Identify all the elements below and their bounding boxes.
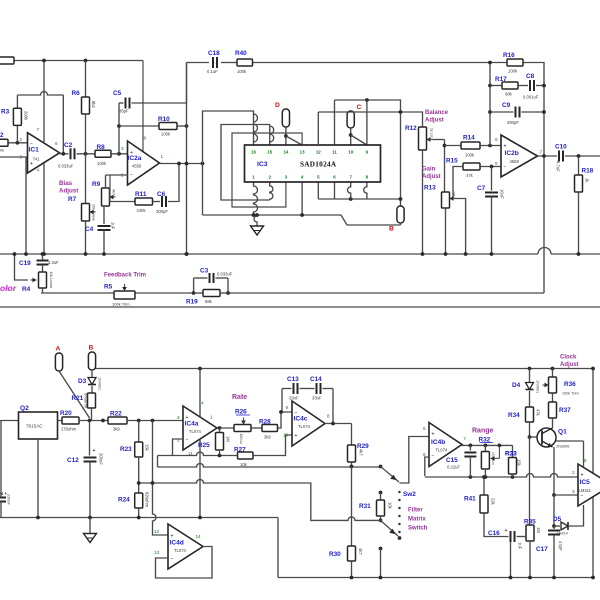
svg-text:R28: R28 xyxy=(259,419,271,426)
wire top-left supply rail xyxy=(14,60,143,62)
svg-text:16: 16 xyxy=(251,150,256,155)
wire C2 to R8 xyxy=(77,153,96,155)
junction rail / R6 xyxy=(84,59,88,63)
wire wavy ground stem xyxy=(254,215,257,226)
wire mid ground rail xyxy=(0,517,278,519)
svg-text:1M: 1M xyxy=(226,436,231,442)
wire R41 to C16 xyxy=(484,513,509,537)
wire line B filter feedback xyxy=(139,480,381,521)
junction R31 top contact xyxy=(379,491,383,495)
resistor R34 xyxy=(508,407,541,422)
wire to D5 xyxy=(554,525,560,527)
wire base column down xyxy=(529,437,531,525)
svg-text:11: 11 xyxy=(332,150,337,155)
wire IC4a pin11 down xyxy=(199,440,201,518)
capacitor C14 xyxy=(310,376,322,401)
svg-text:100k Trim: 100k Trim xyxy=(112,302,130,307)
svg-text:−: − xyxy=(432,454,435,460)
wire C pin to pin10 xyxy=(350,128,352,145)
svg-text:R15: R15 xyxy=(446,158,458,165)
junction bottom rail / right edge xyxy=(591,576,595,580)
switch Sw2 arm 1 xyxy=(381,467,400,483)
resistor R25 xyxy=(198,433,231,451)
svg-text:R20: R20 xyxy=(60,410,72,417)
wire C to pin9 diagonal xyxy=(351,135,367,145)
resistor R22 xyxy=(108,411,127,432)
capacitor C9 xyxy=(502,102,520,125)
svg-text:+: + xyxy=(505,528,508,534)
svg-text:B: B xyxy=(89,345,94,352)
svg-text:R41: R41 xyxy=(464,496,476,503)
resistor R27 xyxy=(234,447,253,468)
wire R37 to Q1 collector xyxy=(552,418,554,428)
svg-text:741: 741 xyxy=(33,157,41,162)
wire R4 to feedback line xyxy=(42,288,44,293)
svg-text:−: − xyxy=(581,494,584,500)
resistor R10 xyxy=(158,116,177,137)
svg-text:Feedback Trim: Feedback Trim xyxy=(104,273,146,279)
svg-text:68k: 68k xyxy=(205,299,213,304)
svg-text:4k7: 4k7 xyxy=(112,189,116,195)
resistor R31 xyxy=(359,500,393,516)
resistor R15 xyxy=(446,158,480,179)
junction emitter / IC5 xyxy=(552,493,556,497)
wire R40 to R16 xyxy=(253,62,508,64)
wire D pin to pin14 xyxy=(285,127,287,145)
wire feedback right leg xyxy=(62,95,64,154)
svg-text:Q1: Q1 xyxy=(558,429,567,436)
svg-text:R13: R13 xyxy=(424,185,436,192)
wire R15 to IC2b pin5 xyxy=(480,166,501,168)
svg-text:33nF: 33nF xyxy=(312,396,322,401)
trimmer resistor R13 xyxy=(424,185,456,209)
wire feedback to R3 xyxy=(16,95,18,108)
wire IC4d feedback loop xyxy=(156,547,213,579)
svg-text:10: 10 xyxy=(283,433,289,438)
junction IC4d branch xyxy=(151,419,155,423)
svg-text:6: 6 xyxy=(423,452,426,457)
svg-text:C3: C3 xyxy=(200,268,209,275)
node B terminal pin xyxy=(88,345,95,371)
wire R19 right xyxy=(220,292,228,294)
wire R16 right to IC2b output column xyxy=(523,63,544,157)
wire loop to inv input xyxy=(282,389,292,413)
trimmer resistor R4 xyxy=(22,272,53,294)
wire to R17 xyxy=(490,85,502,87)
junction main node xyxy=(88,419,92,423)
switch Sw2 arm 2 xyxy=(381,520,399,536)
junction ground contact xyxy=(379,547,383,551)
wire R11 to C6 xyxy=(153,201,161,203)
svg-text:2: 2 xyxy=(20,137,23,142)
wire D to pin13 diagonal xyxy=(286,136,302,145)
switch Sw2 contact strip xyxy=(398,491,400,533)
junction R3 / input xyxy=(16,141,20,145)
junction rail mid xyxy=(185,252,189,256)
svg-text:9: 9 xyxy=(286,405,289,410)
capacitor C3 xyxy=(200,268,233,284)
svg-text:560ohm: 560ohm xyxy=(84,393,89,409)
transistor Q1 xyxy=(537,428,569,449)
wire R15 left to gain wiper xyxy=(453,167,463,199)
ground BBD xyxy=(251,226,264,235)
svg-text:12: 12 xyxy=(154,529,160,534)
wire top rail to C18 xyxy=(187,62,210,64)
svg-text:33nF: 33nF xyxy=(289,396,299,401)
wire gain wiper arrow xyxy=(450,196,466,254)
svg-text:0.001uF: 0.001uF xyxy=(523,95,539,100)
svg-text:36pF: 36pF xyxy=(119,109,129,114)
junction wiper / rail xyxy=(464,252,468,256)
wire R23 to R24 xyxy=(138,457,140,493)
wire node to C12 xyxy=(89,421,91,456)
svg-text:10uF: 10uF xyxy=(500,189,505,199)
svg-text:6: 6 xyxy=(495,137,498,142)
wire second loop bottom xyxy=(254,199,270,201)
svg-text:IC4a: IC4a xyxy=(185,421,199,428)
svg-text:IC3: IC3 xyxy=(257,161,268,168)
svg-text:300pF: 300pF xyxy=(156,209,168,214)
wire output to R33 xyxy=(512,445,514,457)
svg-text:200uF: 200uF xyxy=(99,453,104,465)
svg-text:+: + xyxy=(581,473,584,479)
junction R23-R24 column / line B xyxy=(137,481,141,485)
junction base node xyxy=(528,435,532,439)
node A terminal pin xyxy=(55,346,62,372)
wire power input xyxy=(0,420,19,422)
wire R28 to IC4c inv xyxy=(278,412,282,428)
capacitor C4 xyxy=(85,222,116,233)
junction R41 / bus xyxy=(482,475,486,479)
svg-text:7: 7 xyxy=(37,127,40,132)
trimmer resistor R32 xyxy=(479,437,496,470)
junction R35 / rail xyxy=(528,576,532,580)
svg-text:240k: 240k xyxy=(137,208,147,213)
wire collector to IC5 supply xyxy=(556,440,584,442)
node C terminal pin xyxy=(347,104,361,128)
wire R34 to base node xyxy=(529,422,531,437)
svg-text:A: A xyxy=(56,346,61,353)
svg-text:C10: C10 xyxy=(555,144,567,151)
wire pin12 to R12 xyxy=(318,112,422,127)
op-amp IC4d xyxy=(154,524,203,569)
svg-text:5: 5 xyxy=(423,426,426,431)
svg-text:100k: 100k xyxy=(465,153,475,158)
wire IC2a output xyxy=(160,163,203,165)
wire IC4a feedback loop xyxy=(158,439,238,456)
junction contact stub / rail xyxy=(379,576,383,580)
node D terminal pin xyxy=(275,102,290,127)
junction arm1 pivot xyxy=(379,465,383,469)
svg-text:6: 6 xyxy=(55,141,58,146)
svg-text:4: 4 xyxy=(37,168,40,173)
resistor R33 xyxy=(505,451,522,475)
svg-text:15: 15 xyxy=(267,150,272,155)
svg-text:R5: R5 xyxy=(104,284,113,291)
junction C9 left xyxy=(488,110,492,114)
svg-text:3: 3 xyxy=(572,489,575,494)
resistor R29 xyxy=(348,443,370,462)
junction bottom bus / pin1 loop xyxy=(252,213,256,217)
wire C8 to column xyxy=(536,85,544,87)
svg-text:R33: R33 xyxy=(505,451,517,458)
resistor R21 xyxy=(72,393,96,409)
svg-text:B: B xyxy=(389,226,394,233)
wire cap loop right xyxy=(323,388,334,390)
svg-text:4.7uF: 4.7uF xyxy=(556,161,561,172)
svg-text:1uF: 1uF xyxy=(518,542,523,550)
resistor R28 xyxy=(259,419,278,440)
svg-text:R11: R11 xyxy=(135,191,147,198)
wire pin4 stub xyxy=(301,182,303,215)
wire R30 to rail xyxy=(351,561,353,578)
op-amp IC4a xyxy=(177,401,217,457)
wire R13 to rail xyxy=(445,208,447,254)
wire rail to C19 xyxy=(42,254,44,261)
svg-text:+: + xyxy=(30,161,33,167)
capacitor C18 xyxy=(207,50,220,74)
svg-text:47k: 47k xyxy=(536,409,541,417)
wire input to IC1 pin 2 xyxy=(0,142,28,144)
wire BBD left outer loop xyxy=(203,111,258,215)
svg-text:14: 14 xyxy=(196,534,202,539)
junction R25 / loop xyxy=(218,454,222,458)
capacitor C15 xyxy=(446,453,476,470)
resistor R3 xyxy=(1,108,29,125)
svg-text:Filter: Filter xyxy=(408,508,423,514)
wire feedback line left xyxy=(41,292,114,294)
wire inv input to R11 xyxy=(110,175,135,202)
junction output / R25 xyxy=(218,426,222,430)
wire BBD right outer loop top xyxy=(335,100,401,206)
svg-text:Adjust: Adjust xyxy=(59,188,78,195)
svg-text:IC4d: IC4d xyxy=(170,540,184,547)
wire R22 to IC4a xyxy=(127,420,183,422)
junction R12 / rail xyxy=(421,252,425,256)
junction D5 / C17 xyxy=(552,524,556,528)
svg-text:−: − xyxy=(130,172,133,178)
junction C3 / feedback xyxy=(226,291,230,295)
svg-text:R10: R10 xyxy=(158,116,170,123)
capacitor C17 xyxy=(536,531,563,554)
svg-text:3k9: 3k9 xyxy=(264,435,271,440)
svg-text:3.3uF: 3.3uF xyxy=(48,260,59,265)
op-amp IC4c xyxy=(283,401,330,446)
svg-text:200k: 200k xyxy=(24,111,29,121)
IC U-IC3 SAD1024A xyxy=(245,145,381,182)
wire R32 to bus xyxy=(484,469,486,477)
svg-text:100k Trim: 100k Trim xyxy=(562,392,579,396)
wire IC2b output xyxy=(538,155,558,157)
svg-text:+: + xyxy=(432,432,435,438)
wire R31 top stub xyxy=(380,493,382,501)
svg-text:220uF: 220uF xyxy=(7,494,11,505)
junction bottom contact xyxy=(398,536,402,540)
resistor R30 xyxy=(329,546,363,561)
svg-text:4: 4 xyxy=(201,401,204,406)
svg-text:C16: C16 xyxy=(488,530,500,537)
wire IC1 pin4 down to rail xyxy=(43,164,45,255)
wire bus to R41 xyxy=(483,477,485,495)
svg-text:100k: 100k xyxy=(237,69,247,74)
junction output / mid column xyxy=(185,162,189,166)
svg-text:Switch: Switch xyxy=(408,526,428,532)
wire B pin to bottom bus xyxy=(400,223,402,225)
svg-text:4558: 4558 xyxy=(510,159,520,164)
resistor R23 xyxy=(120,442,150,457)
junction B column / lower bus xyxy=(399,197,403,201)
wire rail to IC4a supply xyxy=(199,369,201,417)
resistor R24 xyxy=(118,492,150,508)
svg-text:−: − xyxy=(171,556,174,562)
svg-text:2: 2 xyxy=(0,132,4,139)
wire IC4a output xyxy=(217,427,234,429)
wire pin2 stub xyxy=(270,182,273,200)
junction feedback column / pin6 xyxy=(488,144,492,148)
svg-text:2N3906: 2N3906 xyxy=(556,445,569,449)
junction C15 / bus xyxy=(469,475,473,479)
svg-text:3: 3 xyxy=(20,155,23,160)
svg-text:−: − xyxy=(186,437,189,443)
junction C16 / rail xyxy=(509,576,513,580)
wire switch contact to IC4b plus input xyxy=(400,437,430,484)
capacitor C8 xyxy=(523,73,539,100)
junction C3 / feedback xyxy=(192,291,196,295)
resistor R18 xyxy=(575,168,594,193)
capacitor C5 xyxy=(113,90,130,114)
svg-text:1N4001: 1N4001 xyxy=(98,377,102,390)
svg-text:C17: C17 xyxy=(536,546,548,553)
op-amp IC2a xyxy=(121,136,164,186)
wire C9 to column xyxy=(522,111,545,113)
wire bottom-section top rail xyxy=(92,368,593,370)
svg-text:C4: C4 xyxy=(85,226,94,233)
regulator Q2 7815 xyxy=(19,405,58,439)
resistor R6 xyxy=(72,90,97,114)
trimmer resistor R12 xyxy=(405,125,434,150)
junction R18 / rail xyxy=(577,252,581,256)
svg-text:R14: R14 xyxy=(463,135,475,142)
node B terminal pin xyxy=(389,206,404,233)
wire BBD left outer loop bottom xyxy=(254,182,258,215)
svg-text:1N4001: 1N4001 xyxy=(536,380,540,393)
junction R33 / bus xyxy=(511,475,515,479)
wire R31 to line B xyxy=(380,516,382,520)
junction Q2 / rail xyxy=(36,516,40,520)
svg-text:SAD1024A: SAD1024A xyxy=(300,161,337,169)
trimmer resistor R26 xyxy=(234,409,251,445)
diode D5 xyxy=(553,516,568,536)
wire IC1 feedback top xyxy=(17,92,63,95)
svg-text:R21: R21 xyxy=(72,395,84,402)
resistor R1 (cut at edge) xyxy=(0,57,14,64)
wire R33 to bus xyxy=(512,474,514,477)
svg-text:3: 3 xyxy=(177,415,180,420)
junction feedback / output xyxy=(177,162,181,166)
wire output to R25 xyxy=(219,428,221,433)
svg-text:R12: R12 xyxy=(405,125,417,132)
wire to R10 xyxy=(119,125,159,127)
svg-text:+: + xyxy=(295,433,298,439)
wire output to R29 xyxy=(351,424,353,446)
svg-text:R34: R34 xyxy=(508,412,520,419)
svg-text:Bias: Bias xyxy=(59,180,73,187)
wire R32 wiper xyxy=(491,445,500,461)
svg-text:R30: R30 xyxy=(329,551,341,558)
svg-text:0.033uF: 0.033uF xyxy=(217,272,233,277)
svg-text:Adjust: Adjust xyxy=(425,118,444,124)
wire R12 bottom to rail xyxy=(422,150,424,254)
resistor R8 xyxy=(95,144,111,166)
junction C7 / pin5 xyxy=(490,165,494,169)
svg-text:4558: 4558 xyxy=(132,164,142,169)
wire emitter node down xyxy=(553,495,555,526)
junction R18 / output xyxy=(577,154,581,158)
wire A pin diagonal xyxy=(59,371,90,418)
resistor R16 xyxy=(503,52,523,74)
wire to R32 xyxy=(484,445,486,451)
wire B pin to D3 xyxy=(91,370,93,377)
svg-text:10k Linear: 10k Linear xyxy=(49,272,53,290)
wire pin5 to C7 xyxy=(491,167,493,191)
junction pin7 / lower bus xyxy=(349,197,353,201)
wire pin5 stub xyxy=(317,182,319,199)
junction column / rail xyxy=(185,252,189,256)
op-amp IC2b xyxy=(495,135,543,177)
junction C17 / rail xyxy=(552,576,556,580)
svg-text:R27: R27 xyxy=(234,447,246,454)
svg-text:D: D xyxy=(275,102,280,109)
wire C13 to C14 xyxy=(300,388,315,390)
junction R10 left xyxy=(117,124,121,128)
diode D4 xyxy=(512,380,540,393)
svg-text:5: 5 xyxy=(495,161,498,166)
svg-text:R25: R25 xyxy=(198,442,210,449)
wire R35 to rail xyxy=(529,541,531,578)
wire ground rail upper left xyxy=(0,253,538,255)
wire output to edge xyxy=(565,155,600,157)
wire C3 right xyxy=(216,277,229,279)
wire C3 loop left leg xyxy=(193,278,195,293)
svg-text:R8: R8 xyxy=(97,144,106,151)
capacitor C19 xyxy=(19,260,59,267)
op-amp IC5 xyxy=(572,458,600,506)
svg-text:R4: R4 xyxy=(22,286,31,293)
svg-text:68k: 68k xyxy=(505,92,513,97)
wire C3 left xyxy=(194,277,208,279)
junction loop / R12 branch xyxy=(399,110,403,114)
svg-text:270ohm: 270ohm xyxy=(61,427,77,432)
svg-text:Range: Range xyxy=(472,428,494,435)
wire R12 wiper xyxy=(433,139,445,141)
wire R29 to node xyxy=(351,462,353,467)
junction rail / D4 xyxy=(528,367,532,371)
wire C3 loop right leg xyxy=(227,278,229,293)
wire to Q1 base xyxy=(530,436,538,438)
svg-text:C5: C5 xyxy=(113,90,122,97)
junction wiper / R14 xyxy=(443,144,447,148)
wire C5 right to top column xyxy=(132,63,187,104)
junction ground / bottom bus xyxy=(255,213,259,217)
wire pin6 stub xyxy=(334,182,336,199)
svg-text:4k7: 4k7 xyxy=(358,548,363,555)
svg-text:4k7: 4k7 xyxy=(359,449,364,456)
wire to R19 xyxy=(194,292,203,294)
svg-text:15k: 15k xyxy=(517,459,522,467)
wire lower right bus xyxy=(318,198,400,200)
wire V+ to IC1 pin 7 xyxy=(43,61,45,143)
capacitor C6 xyxy=(156,191,168,214)
